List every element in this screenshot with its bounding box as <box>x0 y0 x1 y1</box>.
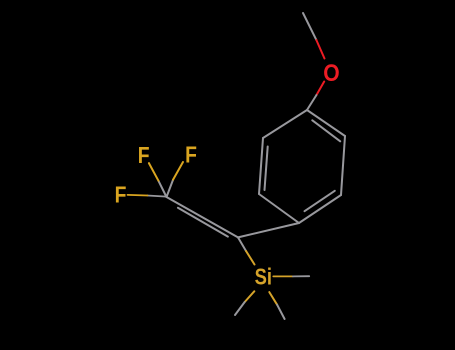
wire double bond inner line <box>178 208 228 237</box>
wire C3-C1 main chain line (double bond outer) <box>167 197 239 237</box>
benzene ring edge V5-V6 <box>259 138 263 194</box>
wire C3-F2 fluorine half <box>173 162 183 180</box>
svg-text:F: F <box>138 143 150 168</box>
svg-text:O: O <box>323 60 339 87</box>
wire C3-F1 carbon half <box>158 181 166 197</box>
svg-text:F: F <box>185 143 197 168</box>
svg-text:Si: Si <box>255 265 272 290</box>
wire C3-F2 carbon half <box>167 180 174 197</box>
benzene ring edge V2-V3 <box>341 136 345 195</box>
benzene inner aromatic line V3-V4 <box>305 191 335 211</box>
benzene inner aromatic line V1-V2 <box>312 120 340 141</box>
wire Si-CH3 down-left carbon half <box>235 302 245 315</box>
benzene ring edge V6-V1 <box>263 110 307 138</box>
wire O-ring bond carbon half <box>307 95 316 110</box>
atom label Si <box>255 265 272 290</box>
benzene ring edge V3-V4 <box>299 195 341 223</box>
wire C1 to ring V4 <box>238 223 299 237</box>
wire O-ring bond oxygen half <box>316 82 324 96</box>
benzene inner aromatic line V5-V6 <box>265 147 268 191</box>
wire methoxy CH3-O bond oxygen half <box>316 40 324 58</box>
wire C1-Si carbon half <box>238 237 246 251</box>
wire Si-CH3 down-right silicon half <box>269 292 277 305</box>
wire C3-F3 carbon half <box>147 196 166 197</box>
atom label O (methoxy oxygen) <box>323 60 339 87</box>
atom label F3 <box>115 183 127 208</box>
wire C1-Si silicon half <box>246 251 254 264</box>
wire methoxy CH3-O bond carbon half <box>303 13 316 40</box>
wire Si-CH3 right carbon half <box>293 275 309 277</box>
wire Si-CH3 down-left silicon half <box>245 291 255 302</box>
wire C3-F3 fluorine half <box>128 194 148 197</box>
svg-text:F: F <box>115 183 127 208</box>
benzene ring edge V1-V2 <box>307 110 345 136</box>
atom label F1 <box>138 143 150 168</box>
wire C3-F1 fluorine half <box>149 163 159 181</box>
wire Si-CH3 right silicon half <box>273 275 293 277</box>
wire Si-CH3 down-right carbon half <box>277 305 285 319</box>
atom label F2 <box>185 143 197 168</box>
benzene ring edge V4-V5 <box>259 194 299 223</box>
